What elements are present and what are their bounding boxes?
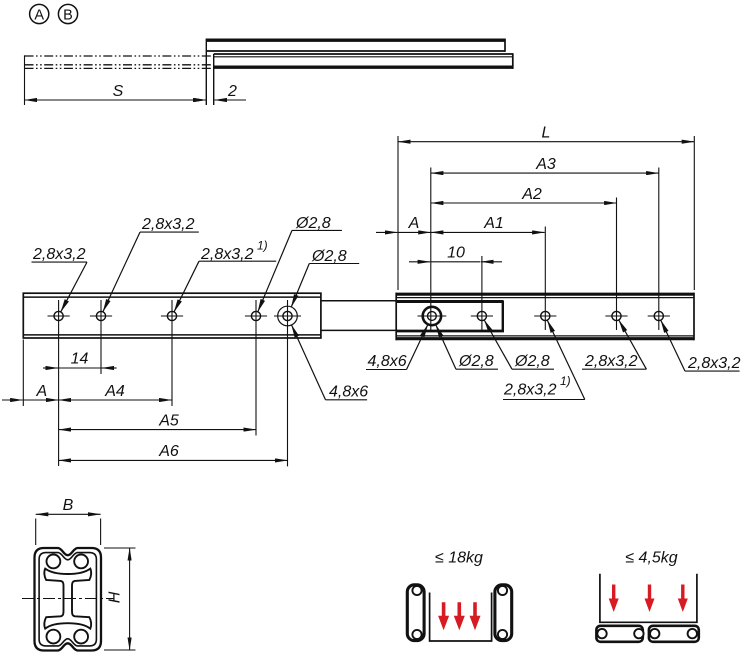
plan view: outer right rail bottom flange (thick) [396, 337, 694, 340]
hole 1 left rail [54, 311, 63, 320]
label 2,8x3,2 hole2 leader [103, 232, 140, 312]
label 2,8x3,2 hole8 leader [619, 320, 647, 369]
load icon 2 tray box [600, 574, 697, 623]
dimension A1 line [431, 231, 545, 233]
dimension 14 left outside arrow [43, 367, 58, 369]
plan view: outer right rail top flange (thick) [396, 293, 694, 296]
cross-section outer profile contour [35, 548, 102, 651]
hole 2 centerline vertical / extension [100, 300, 102, 374]
dimension 14 line [59, 367, 101, 369]
label 2,8x3,2 hole1 leader [61, 262, 87, 312]
hole 3 centerline horizontal [161, 315, 183, 317]
label 2,8x3,2 hole9 leader [661, 320, 685, 371]
cross-section H bottom extension line [104, 649, 136, 651]
hole 3 centerline vertical / extension [171, 300, 173, 406]
hole 5 centerline vertical / extension [287, 300, 289, 466]
load icon 1 left profile top roller [412, 586, 421, 595]
hole 1 centerline vertical / extension [58, 300, 60, 466]
svg-text:B: B [63, 497, 74, 514]
load icon 1 left profile bottom roller [412, 630, 421, 639]
load icon 2 right rail wheel right [688, 629, 697, 638]
plan view: left rail body [23, 293, 321, 338]
cross-section ball bottom-right [74, 630, 88, 644]
cross-section H top extension line [104, 547, 136, 549]
hole 2 left rail [96, 311, 105, 320]
svg-text:4,8x6: 4,8x6 [368, 353, 407, 370]
hole 2 centerline horizontal [90, 315, 112, 317]
label dia 2,8 hole5 underline [309, 263, 359, 265]
hole 6 right rail [477, 311, 486, 320]
svg-text:2,8x3,2: 2,8x3,2 [32, 246, 86, 263]
stud hole centerline vertical / extension to top dims [430, 168, 432, 333]
svg-text:2: 2 [227, 83, 237, 100]
svg-text:≤ 4,5kg: ≤ 4,5kg [625, 550, 677, 567]
side view: bottom bar thick bottom flange [214, 65, 513, 68]
hole 4 centerline horizontal [245, 315, 267, 317]
stud hole centerline horizontal [418, 315, 447, 317]
plan view: intermediate rail top line [321, 300, 504, 302]
hole 5 centerline horizontal [274, 315, 301, 317]
side view: closed slide phantom top line [25, 55, 214, 57]
label 2,8x3,2 hole9 underline [685, 370, 740, 372]
dimension L line [398, 141, 694, 143]
left rail edge extension line [22, 340, 24, 407]
dimension 2 right arrow [214, 99, 246, 101]
side view: bottom bar top edge [214, 53, 513, 55]
dimension A (bottom) outside arrow [2, 399, 23, 401]
side view: top bar right end [504, 39, 506, 52]
plan view: intermediate rail end plate (thick) [397, 302, 503, 331]
dimension 14 right outside arrow [102, 367, 117, 369]
hole 7 centerline vertical / extension to A1 [544, 227, 546, 331]
svg-text:Ø2,8: Ø2,8 [514, 353, 550, 370]
svg-text:A3: A3 [535, 156, 556, 173]
hole 8 right rail [612, 311, 621, 320]
dimension A4 line [59, 399, 172, 401]
right rail right edge extension line [693, 136, 695, 290]
dimension A (top) line [398, 231, 431, 233]
side view: closed slide left end cap / extension line [24, 55, 26, 105]
svg-text:Ø2,8: Ø2,8 [295, 215, 331, 232]
svg-text:14: 14 [71, 351, 89, 368]
svg-text:Ø2,8: Ø2,8 [458, 353, 494, 370]
hole 6 centerline horizontal [471, 315, 493, 317]
hole 6 centerline vertical / extension to 10-dim [481, 256, 483, 330]
svg-text:2,8x3,2: 2,8x3,2 [584, 353, 638, 370]
dimension S line [25, 99, 207, 101]
plan view: left rail inner top line [23, 296, 321, 298]
hole 8 centerline vertical / extension to A2 [616, 198, 618, 331]
svg-text:2,8x3,2: 2,8x3,2 [141, 216, 195, 233]
cross-section dimension H line [129, 548, 131, 650]
svg-text:≤ 18kg: ≤ 18kg [435, 550, 483, 567]
cross-section ball top-left [47, 555, 61, 569]
svg-text:1): 1) [560, 374, 571, 388]
load icon 1 tray box [430, 593, 492, 642]
cross-section inner profile contour [39, 553, 96, 646]
stud hole right rail outer ring [423, 307, 441, 325]
label 4,8x6 hole5 underline [326, 399, 368, 401]
dimension A6 line [59, 459, 288, 461]
label 2,8x3,2 hole2 underline [140, 231, 199, 233]
hole 7 right rail [541, 311, 550, 320]
side view: extension line at x=213.7 [213, 54, 215, 105]
hole 3 left rail [167, 311, 176, 320]
load icon 2 left rail wheel left [597, 629, 606, 638]
dimension 10 left arrow [409, 261, 430, 263]
svg-text:1): 1) [257, 239, 268, 253]
load icon 2 right rail wheel left [650, 629, 659, 638]
load icon 2 left rail wheel right [634, 629, 643, 638]
plan view: intermediate rail bottom line [321, 329, 504, 331]
dimension A3 line [431, 172, 659, 174]
label 2,8x3,2 1) hole7 leader [547, 320, 585, 399]
hole 5 left rail inner circle [283, 311, 292, 320]
hole 7 centerline horizontal [534, 315, 556, 317]
label 2,8x3,2 1) hole7 underline [503, 399, 585, 401]
label 2,8x3,2 1) hole3 underline [199, 260, 276, 262]
plan view: right rail inner bottom line [396, 335, 694, 337]
side view: top bar bottom edge [206, 50, 505, 52]
dimension A (bottom) line [23, 399, 58, 401]
svg-text:A: A [34, 7, 44, 23]
svg-text:Ø2,8: Ø2,8 [311, 248, 347, 265]
load icon 2 red arrow 3 [678, 585, 688, 613]
svg-text:S: S [113, 83, 124, 100]
load icon 1 right slide profile [495, 585, 512, 641]
hole 9 centerline horizontal [648, 315, 670, 317]
label dia 2,8 hole4 leader [258, 230, 292, 311]
dimension A (top) tail arrow [376, 231, 397, 233]
load icon 2 right rail profile [649, 626, 699, 642]
hole 9 right rail [654, 311, 663, 320]
svg-text:A6: A6 [158, 443, 179, 460]
svg-text:H: H [107, 591, 124, 603]
side view: closed slide phantom bottom line [25, 67, 214, 69]
cross-section ball top-right [74, 555, 88, 569]
svg-text:A1: A1 [483, 215, 504, 232]
dimension 10 line [431, 261, 481, 263]
label 4,8x6 hole5 leader [292, 325, 326, 400]
svg-text:B: B [63, 7, 73, 23]
hole 4 left rail [251, 311, 260, 320]
svg-text:A4: A4 [104, 383, 125, 400]
plan view: left rail inner bottom line [23, 334, 321, 336]
load icon 2 red arrow 2 [645, 585, 655, 613]
label dia 2,8 hole6 leader [484, 320, 512, 369]
label 4,8x6 stud leader [407, 325, 428, 370]
load icon 1 left slide profile [407, 585, 424, 641]
view label circle B [58, 4, 77, 23]
svg-text:A5: A5 [158, 412, 179, 429]
hole 8 centerline horizontal [605, 315, 627, 317]
dimension A5 line [59, 429, 256, 431]
side view: bottom bar right end [512, 53, 514, 69]
svg-text:10: 10 [447, 245, 465, 262]
hole 4 centerline vertical / extension [255, 300, 257, 436]
svg-text:A: A [408, 215, 420, 232]
hole 5 left rail outer circle [278, 306, 298, 326]
svg-text:A2: A2 [521, 186, 542, 203]
svg-text:2,8x3,2: 2,8x3,2 [503, 381, 557, 398]
load icon 2 left rail profile [596, 626, 642, 642]
hole 1 centerline horizontal [48, 315, 70, 317]
label 2,8x3,2 1) hole3 leader [174, 261, 199, 312]
cross-section horizontal center line [22, 598, 114, 600]
label 2,8x3,2 hole1 underline [32, 261, 88, 263]
svg-text:A: A [35, 383, 47, 400]
dimension 2 left arrow [186, 99, 206, 101]
cross-section B left extension line [35, 519, 37, 546]
plan view: right rail inner top line [396, 297, 694, 299]
load icon 1 right profile bottom roller [498, 630, 507, 639]
label 2,8x3,2 hole8 underline [582, 368, 646, 370]
side view: bottom bar inner line [214, 56, 513, 58]
label dia 2,8 hole4 underline [292, 229, 342, 231]
svg-text:2,8x3,2: 2,8x3,2 [200, 246, 254, 263]
side view: closed slide phantom middle line [25, 64, 214, 66]
plan view: outer right rail left edge [395, 293, 397, 341]
label 4,8x6 stud underline [366, 369, 407, 371]
label dia 2,8 stud leader [436, 325, 456, 370]
label dia 2,8 hole6 underline [512, 368, 554, 370]
dimension 10 right arrow [481, 261, 502, 263]
hole 9 centerline vertical / extension to A3 [658, 168, 660, 331]
side view: top bar thick top flange [206, 39, 505, 42]
side view: extension line at x=206.3 [205, 39, 207, 106]
cross-section ball bottom-left [47, 630, 61, 644]
load icon 1 red arrow 2 [454, 602, 465, 630]
right rail left edge extension line [397, 136, 399, 290]
plan view: outer right rail right edge [693, 293, 695, 341]
cross-section dimension B line [36, 513, 101, 515]
load icon 1 red arrow 3 [470, 602, 481, 630]
dimension A2 line [431, 202, 617, 204]
stud hole right rail inner circle [428, 312, 437, 321]
load icon 1 red arrow 1 [438, 602, 449, 630]
view label circle A [30, 4, 49, 23]
cross-section B right extension line [100, 519, 102, 546]
label dia 2,8 hole5 leader [291, 264, 309, 307]
load icon 2 red arrow 1 [609, 585, 619, 613]
load icon 1 right profile top roller [498, 586, 507, 595]
svg-text:4,8x6: 4,8x6 [329, 384, 368, 401]
cross-section inner I-beam rail [44, 569, 91, 629]
svg-text:L: L [542, 125, 551, 142]
label dia 2,8 stud underline [456, 368, 498, 370]
svg-text:2,8x3,2: 2,8x3,2 [687, 355, 741, 372]
